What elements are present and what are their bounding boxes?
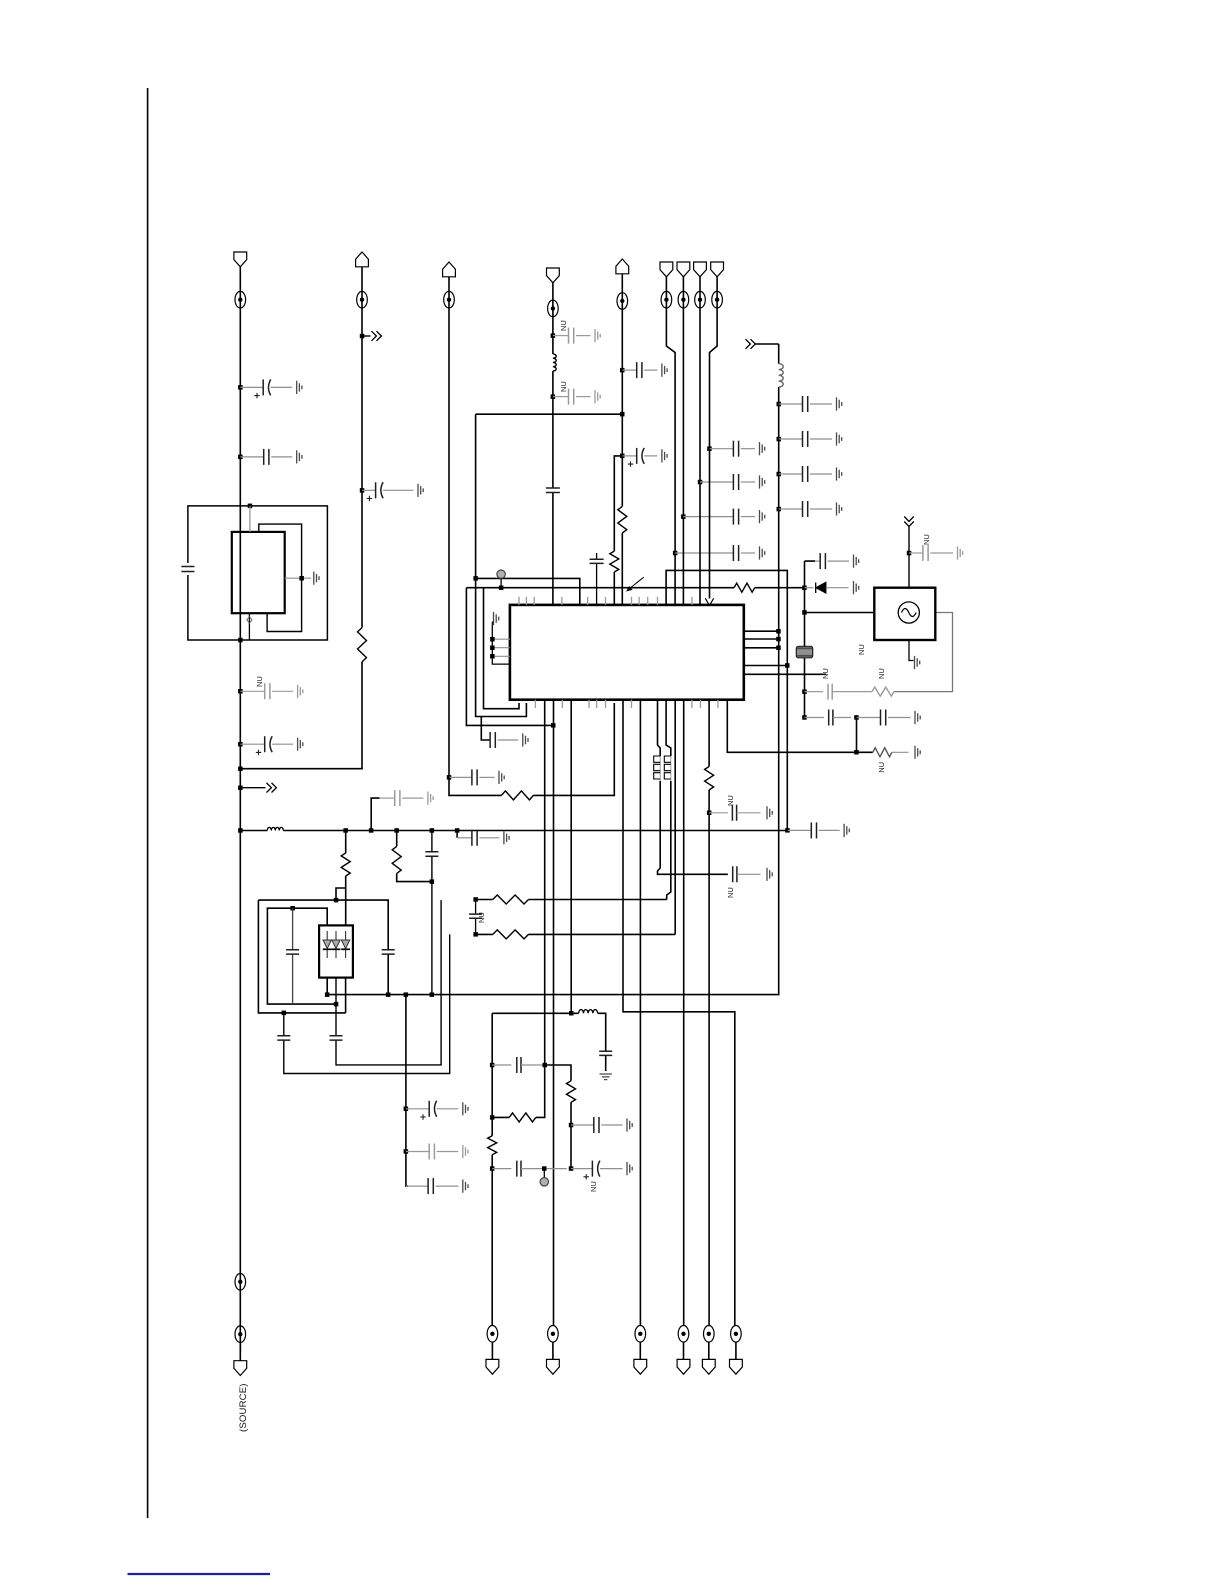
test point TP2: [540, 1169, 548, 1186]
wire x544 to resistor corner: [536, 1065, 545, 1117]
wire y=1168 row: [492, 1161, 567, 1177]
junction conn1 pol-cap 3: [238, 742, 243, 747]
wire net SOURCE main vertical x=240: [239, 267, 241, 1352]
junction lower bus x=406: [404, 992, 409, 997]
capacitor: [490, 732, 528, 748]
wire branch to pin 580: [476, 578, 580, 605]
capacitor NU: [240, 676, 302, 699]
capacitor: [449, 769, 504, 785]
capacitor: [788, 822, 850, 838]
svg-text:NU: NU: [877, 762, 886, 773]
junction inner loop cap: [290, 906, 295, 911]
wire conn8 vertical: [699, 277, 701, 605]
annotation arrow to IC pin: [626, 577, 644, 591]
junction conn5 cap: [620, 368, 625, 373]
junction bridge right: [543, 1063, 548, 1068]
capacitor inside LED shield: [286, 908, 299, 1004]
junction rail cap1: [777, 402, 782, 407]
wire wrap row1: [484, 588, 520, 709]
svg-text:NU: NU: [559, 381, 568, 392]
capacitor: [779, 396, 842, 412]
resistor bridge y=1117: [509, 1113, 536, 1122]
svg-text:NU: NU: [589, 1181, 598, 1192]
IC left pins to ground: [492, 626, 510, 665]
wire-a horizontal y=414 and drop: [476, 414, 623, 716]
connector bottom x=708.8: [702, 1326, 715, 1375]
junction x406 cap2: [404, 1149, 409, 1154]
capacitor T over pin 596: [590, 553, 604, 605]
junction LED shield top: [334, 898, 339, 903]
junction conn9 cap tap: [707, 446, 712, 451]
junction diode node: [802, 586, 807, 591]
off-page arrow down into source top: [904, 517, 914, 588]
capacitor: [779, 501, 842, 517]
wire long rail x=779: [778, 344, 780, 995]
resistor below bus: [392, 846, 401, 873]
diode D2 to ground: [805, 581, 859, 594]
wire y=1065 extension to x571: [545, 1065, 571, 1169]
junction x406 pol-cap: [404, 1107, 409, 1112]
junction conn1 arrow: [238, 786, 243, 791]
wire LED pin1 bottom: [326, 978, 328, 995]
wire sine-feed y=587.7: [466, 587, 805, 589]
junction row3 at x=553: [551, 723, 556, 728]
capacitor NU x709: [709, 795, 772, 821]
IC bottom pin stubs: [535, 700, 718, 708]
junction y=1168 left: [490, 1166, 495, 1171]
wire pin553 to bottom connector: [553, 700, 555, 1326]
wire mid node down: [856, 718, 858, 753]
capacitor (polarized): [406, 1101, 468, 1120]
capacitor (polarized): [622, 448, 667, 467]
junction conn2 arrow: [360, 334, 365, 339]
capacitor in LED shield right edge: [382, 950, 395, 954]
capacitor: [683, 509, 764, 525]
capacitor (polarized): [240, 736, 302, 755]
ground below cap: [600, 1074, 612, 1080]
ground at IC left: [494, 612, 499, 625]
capacitor: [406, 1178, 468, 1194]
svg-text:NU: NU: [877, 668, 886, 679]
connector bottom x=492.4: [486, 1326, 499, 1375]
wire source bottom pin to ground: [909, 640, 920, 669]
capacitor: [457, 830, 509, 846]
junction cap bridge: [490, 1063, 495, 1068]
resistor conn3-to-pin: [501, 791, 533, 800]
capacitor: [622, 362, 667, 378]
connector P9 (top, x=717): [711, 262, 724, 308]
wire conn4 vertical: [552, 283, 554, 605]
junction IC left pins: [490, 637, 495, 642]
capacitor: [815, 553, 859, 569]
wire crystal right pin to ground: [285, 577, 311, 579]
capacitor NU y=874: [726, 866, 772, 898]
wire branch conn5 to Rb: [614, 456, 622, 551]
svg-text:NU: NU: [726, 887, 735, 898]
wire coilB line: [666, 700, 671, 756]
wire conn2 vertical: [240, 267, 362, 769]
wire pin623 to corner connector: [623, 700, 735, 1326]
page left border: [147, 88, 149, 1518]
wire resistor row2: [476, 933, 676, 935]
connector P8 (top, x=700): [694, 262, 707, 308]
capacitor: [675, 545, 765, 561]
connector bottom x=683.5: [677, 1326, 690, 1375]
LED module D1 (3 LEDs): [319, 925, 353, 977]
signal source G1: [874, 588, 935, 640]
junction row2 left: [473, 932, 478, 937]
connector P5 (top, x=622): [616, 259, 629, 605]
junction lower bus shield edge: [386, 992, 391, 997]
junction conn8 cap tap: [698, 480, 703, 485]
off-page arrow right at y=788: [240, 783, 276, 793]
resistor NU y=752.3: [873, 746, 920, 773]
wire coilB bottom to row1: [667, 781, 671, 900]
wire crystal bottom pin1 to shield: [248, 613, 250, 640]
wire conn7 vertical: [682, 277, 684, 605]
junction conn1 cap NU: [238, 689, 243, 694]
capacitor (polarized): [362, 482, 423, 501]
junction conn5 pol-cap: [620, 454, 625, 459]
junction conn1 pol-cap 1: [238, 385, 243, 390]
wire cap drop from row2: [481, 717, 490, 741]
svg-text:NU: NU: [255, 676, 264, 687]
wire resistor to cap line: [397, 831, 432, 882]
capacitor: [779, 431, 842, 447]
capacitor (polarized): [571, 1161, 632, 1180]
connector bottom x=552.9: [546, 1326, 559, 1375]
resistor Ra on conn5 line: [618, 506, 627, 533]
connector bottom x=640.3: [634, 1326, 647, 1375]
connector P4 (top, x=553): [546, 268, 559, 317]
wire y=1013 with coil to ground cap: [492, 1013, 606, 1071]
svg-text:(SOURCE): (SOURCE): [238, 1383, 249, 1432]
junction bus right end: [785, 828, 790, 833]
capacitor bridge y=1065: [492, 1057, 545, 1073]
capacitor: [700, 474, 765, 490]
wire IC pin727 to resistor gnd: [727, 700, 873, 753]
resonator Y1: [796, 646, 812, 658]
wire resistor row1: [476, 899, 667, 901]
footer rule (blue): [128, 1573, 271, 1575]
junction x571 cap tap: [569, 1123, 574, 1128]
junction conn2 pol-cap: [360, 488, 365, 493]
junction rail cap2: [777, 437, 782, 442]
junction bus LED-resistor: [343, 828, 348, 833]
svg-text:NU: NU: [726, 795, 735, 806]
wire LED inner loop: [267, 908, 336, 1004]
capacitor NU: [909, 534, 963, 561]
junction bus cap-up: [369, 828, 374, 833]
svg-text:NU: NU: [922, 534, 931, 545]
wire pin571 line: [570, 700, 572, 1014]
junction y=752.3: [854, 750, 859, 755]
wire conn9 vertical with jog and arrow into IC: [710, 277, 718, 599]
junction bus second cap-down: [455, 828, 460, 833]
svg-text:NU: NU: [559, 320, 568, 331]
feedback NU cap + NU resistor: [805, 613, 953, 700]
connector P7 (top, x=683): [677, 262, 690, 308]
wire conn6 vertical with jog: [666, 277, 675, 605]
wire bus cap-up: [371, 798, 379, 830]
wire pin683 to bottom connector: [683, 700, 685, 1326]
wire IC right pin5: [744, 673, 826, 675]
junction conn5 wire-a: [620, 412, 625, 417]
wire crystal inner loop: [259, 524, 302, 631]
capacitor NU: [406, 1144, 468, 1160]
capacitor NU between rows: [469, 900, 486, 935]
svg-text:NU: NU: [857, 644, 866, 655]
junction conn6 cap tap: [673, 551, 678, 556]
capacitor: [240, 449, 302, 465]
junction LED shield bottom-left cap: [282, 1011, 287, 1016]
junction sine feed: [802, 610, 807, 615]
wire LED pin2 bottom chain: [330, 900, 442, 1065]
crystal shield outer loop: [181, 506, 327, 640]
capacitor NU: [553, 320, 600, 343]
junction LED pin1 on bus: [325, 992, 330, 997]
junction conn4 cap NU 1: [551, 333, 556, 338]
junction TP2: [542, 1166, 547, 1171]
wire pin544 line: [544, 700, 546, 1065]
wire bus drop cap: [456, 831, 458, 838]
connector bottom SOURCE x=240: [234, 1274, 247, 1376]
cap pair to ground y=717.5: [805, 710, 852, 726]
junction x571 bottom: [569, 1166, 574, 1171]
inductor on main bus: [267, 827, 283, 830]
LED shield outer loop: [258, 900, 388, 1013]
wire x=804.5 column: [805, 561, 816, 717]
crystal X1: [232, 532, 285, 613]
wire IC right pins 1-3 to long rail: [744, 631, 779, 648]
resistor Rb: [610, 551, 619, 572]
connector P6 (top, x=666): [660, 262, 673, 308]
off-page arrow right at y=336: [362, 331, 381, 341]
junction bridge resistor left: [490, 1115, 495, 1120]
junction wire-a branch y=578: [473, 576, 478, 581]
wire conn3 to resistor row: [449, 703, 614, 795]
wire crystal top pin2 stub: [249, 506, 251, 532]
capacitor NU: [380, 790, 434, 806]
wire LED pin3 bottom: [345, 978, 347, 1013]
inductor y=1013: [579, 1010, 598, 1014]
junction conn3 cap: [447, 775, 452, 780]
junction x804 low cap pair: [802, 715, 807, 720]
wire pin640 to bottom connector: [639, 700, 641, 1326]
junction bus cap-down: [430, 828, 435, 833]
capacitor: [857, 710, 921, 726]
junction mid node y=717.5: [854, 715, 859, 720]
svg-text:NU: NU: [821, 668, 830, 679]
wire x=406 three-cap line: [406, 995, 408, 1187]
capacitor to ground below coil: [599, 1051, 612, 1055]
IC top pin stubs: [519, 597, 692, 605]
junction conn7 cap tap: [681, 514, 686, 519]
junction source top NU cap: [907, 551, 912, 556]
capacitor series on conn4 line: [546, 488, 560, 493]
wire conn3 vertical: [448, 277, 450, 778]
wire wrap row3: [466, 588, 553, 726]
junction right rail pin4: [785, 663, 790, 668]
junction x571 on y=1013: [569, 1011, 574, 1016]
junction conn1 at shield bottom: [238, 638, 243, 643]
svg-text:NU: NU: [477, 912, 486, 923]
wire Rb to IC pin: [613, 572, 615, 605]
capacitor series on x=432 line: [425, 831, 438, 995]
wire bottom conn stub x=240: [239, 1343, 241, 1361]
junction conn4 cap NU 2: [551, 394, 556, 399]
wire to sine block: [805, 612, 875, 614]
junction bus resistor-down: [394, 828, 399, 833]
capacitor NU: [553, 381, 600, 404]
junction pin709 NU cap: [707, 811, 712, 816]
wire IC top pin 666 to right rail: [666, 570, 787, 830]
junction conn1 cap 2: [238, 455, 243, 460]
connector bottom x=735.9: [729, 1326, 742, 1375]
inductor on long rail: [779, 364, 784, 387]
junction crystal top edge: [248, 504, 253, 509]
resistor on pin709 line: [705, 767, 714, 790]
wire coilA bottom to cap: [658, 781, 728, 874]
off-page arrow to long rail x=779: [746, 339, 779, 349]
resistor on conn2 line: [358, 628, 367, 662]
junction TP1: [499, 586, 504, 591]
wire pin675 down to row2: [674, 700, 676, 935]
junction cap-resistor merge: [430, 879, 435, 884]
test point TP1: [497, 570, 505, 588]
capacitor: [779, 466, 842, 482]
junction feedback node: [802, 689, 807, 694]
resistor on x571: [567, 1081, 576, 1103]
junction rail pins: [776, 629, 781, 634]
junction lower bus x=432: [430, 992, 435, 997]
wire main bus y=830: [240, 830, 787, 832]
wire lower bus y=995: [327, 994, 779, 996]
wire pin709 line: [708, 700, 710, 1326]
junction rail cap4: [777, 507, 782, 512]
junction conn1 main bus: [238, 828, 243, 833]
junction LED pin2 inner loop: [334, 1002, 339, 1007]
wire IC right pin4: [744, 665, 788, 667]
connector P1 (top, x=240): [234, 252, 247, 308]
capacitor: [571, 1117, 632, 1133]
connector P3 (top, x=449): [443, 262, 456, 308]
junction conn1 conn2-return: [238, 767, 243, 772]
capacitor: [710, 441, 765, 457]
IC U1 main: [510, 605, 744, 700]
wire conn-C x=492 vertical: [491, 1013, 493, 1325]
wire shield-cap chain to row2: [277, 934, 449, 1073]
resistor in sine-feed: [734, 583, 755, 592]
resistor on conn-C line: [488, 1136, 497, 1155]
wire coilA line: [658, 700, 661, 756]
junction row1 left: [473, 897, 478, 902]
resistor bus-to-LED: [336, 831, 350, 926]
junction rail cap3: [777, 472, 782, 477]
inductor on conn4 line: [553, 354, 556, 371]
capacitor (polarized): [240, 379, 302, 398]
wire conn5 vertical: [621, 274, 623, 605]
connector P2 (top, x=362): [356, 252, 369, 308]
